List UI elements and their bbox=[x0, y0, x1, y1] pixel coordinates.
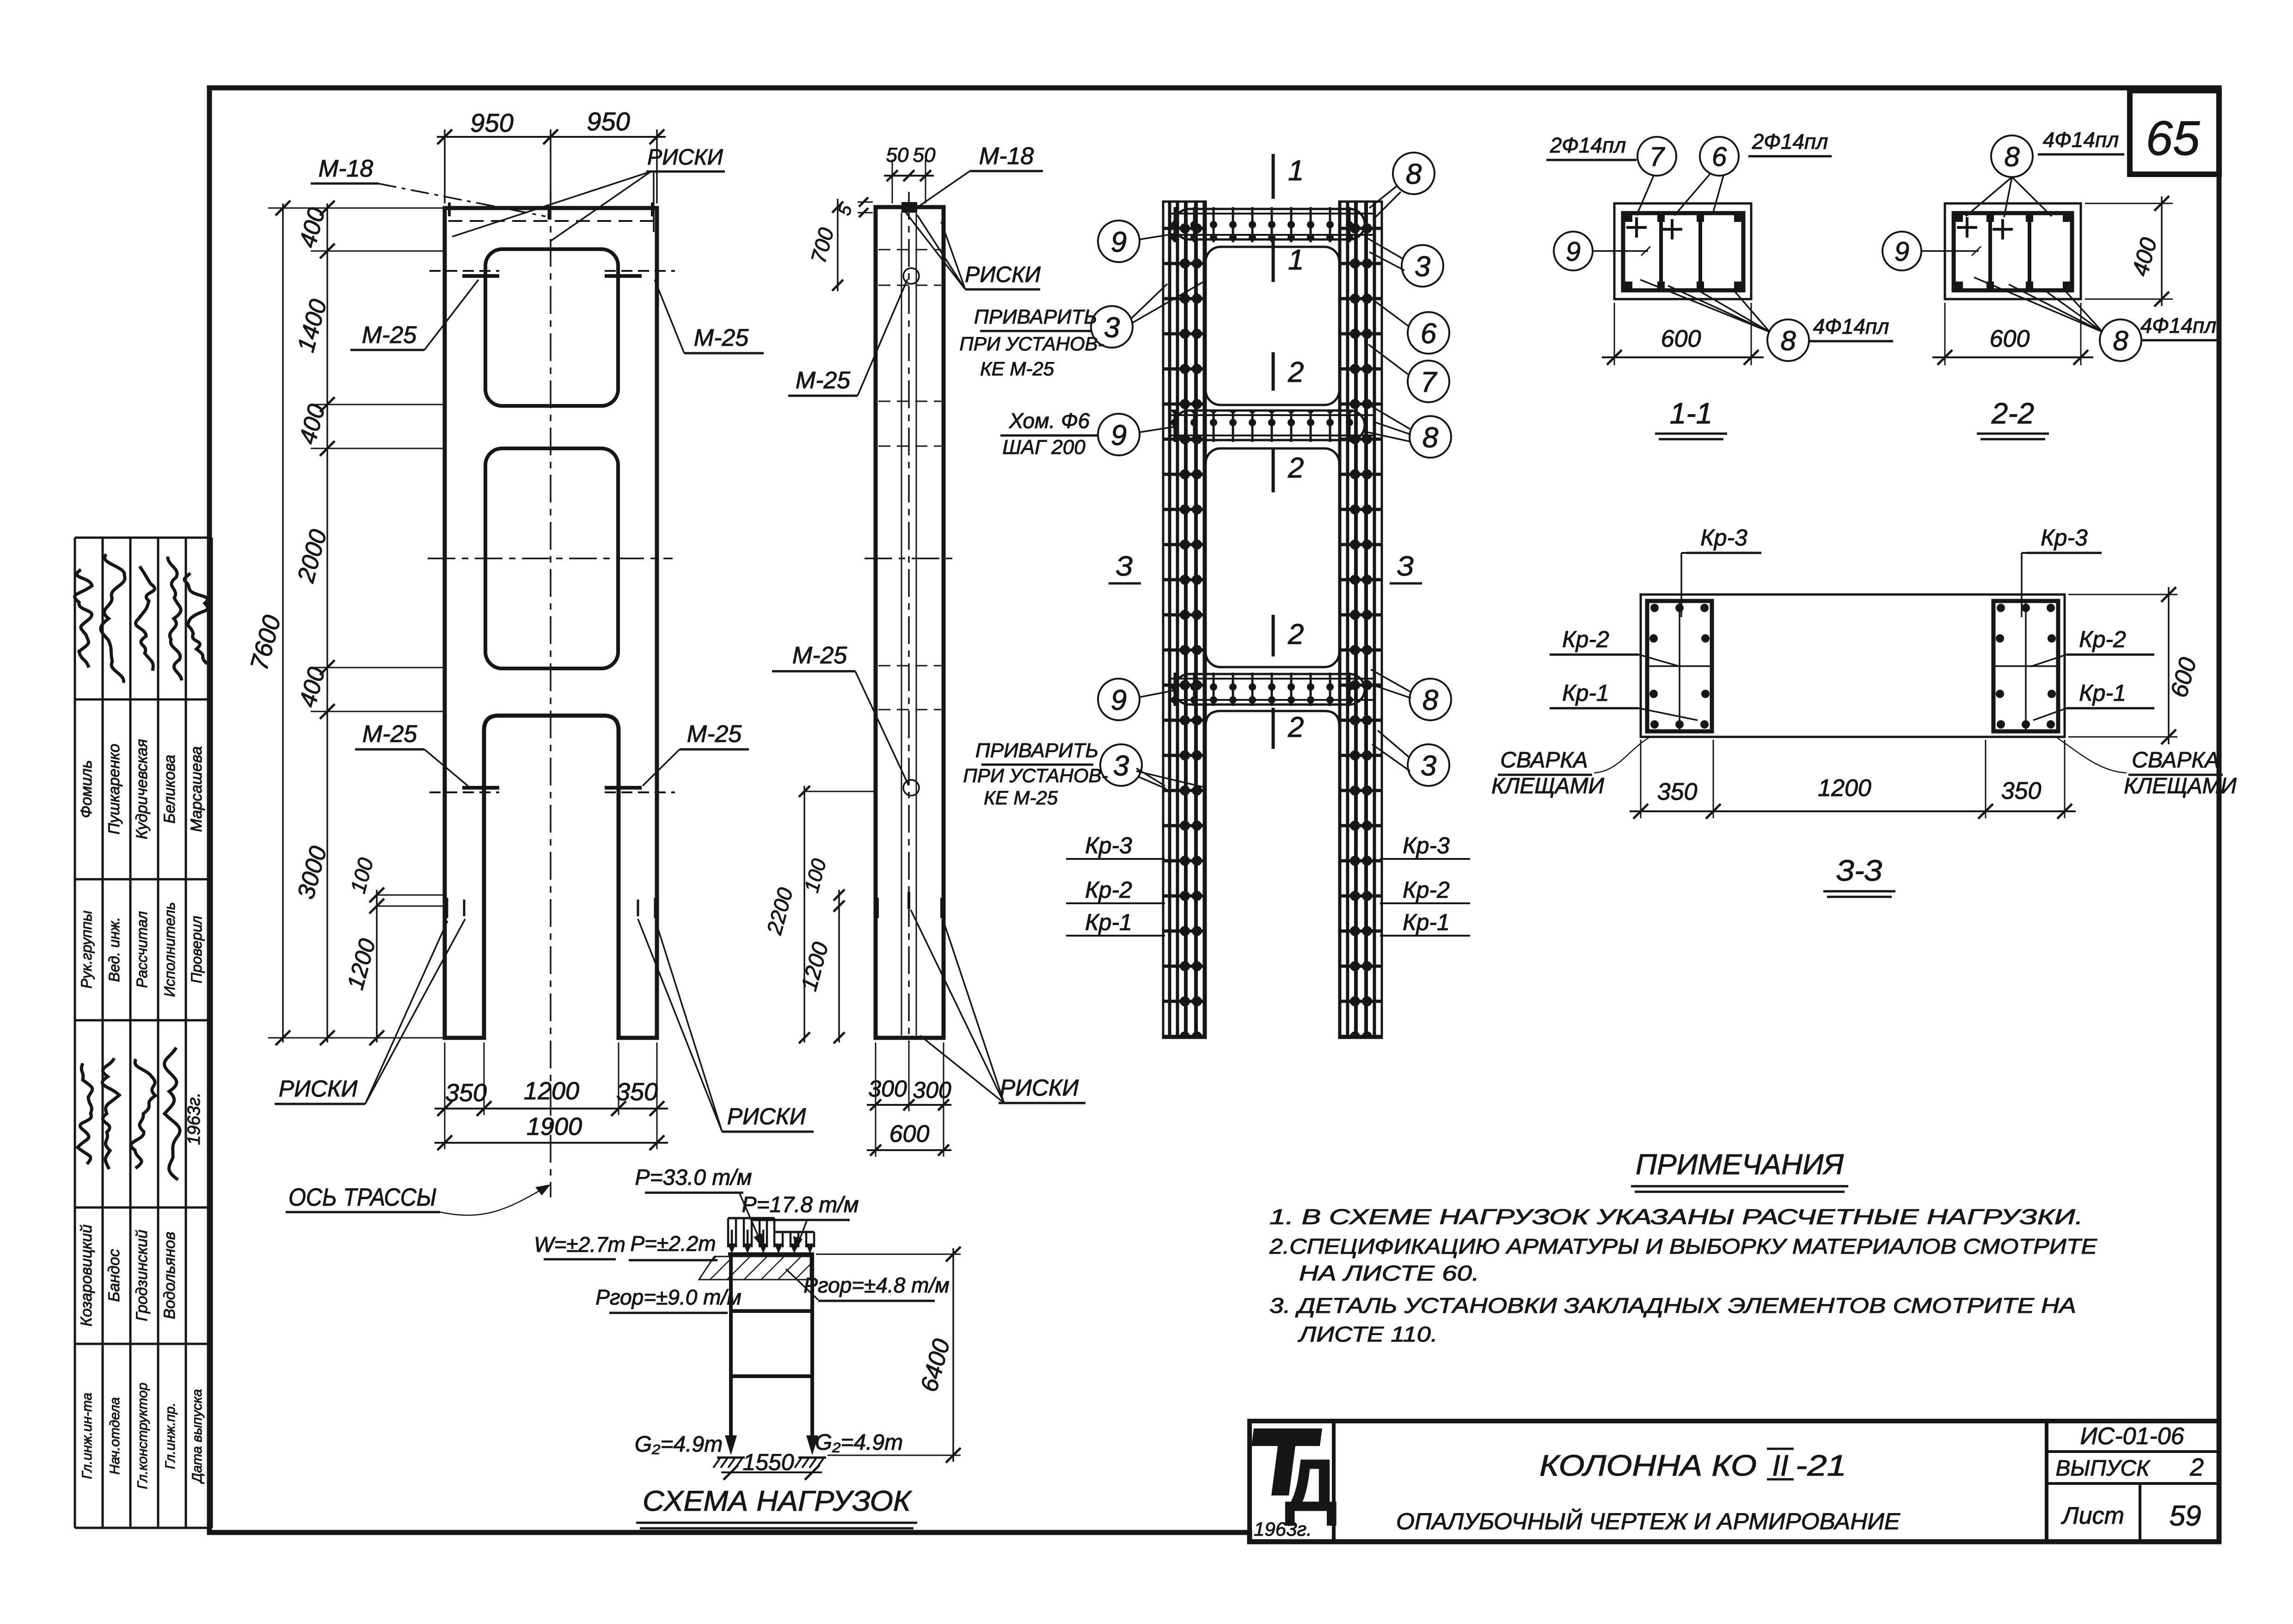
label Ptop=2.2t bbox=[629, 1232, 717, 1260]
svg-text:КЕ М-25: КЕ М-25 bbox=[980, 358, 1055, 380]
dimension 700 side bbox=[806, 199, 843, 291]
side view centerline bbox=[908, 192, 910, 1042]
svg-text:6: 6 bbox=[1712, 142, 1727, 172]
svg-text:ОСЬ ТРАССЫ: ОСЬ ТРАССЫ bbox=[288, 1183, 436, 1211]
dimension 100 1200 front bottom bbox=[342, 855, 447, 1045]
svg-text:Рассчитал: Рассчитал bbox=[134, 911, 150, 988]
title block frame bbox=[1250, 1421, 2219, 1542]
label Kr-2 section 3-3 right bbox=[2030, 626, 2154, 667]
stamp year 1963 bbox=[184, 1092, 204, 1145]
top corner risk marks bbox=[449, 202, 652, 216]
label RISKI top bbox=[452, 145, 725, 241]
svg-text:М-25: М-25 bbox=[687, 721, 742, 748]
title list 59 bbox=[2061, 1500, 2201, 1532]
svg-text:Исполнитель: Исполнитель bbox=[161, 902, 178, 997]
svg-text:РИСКИ: РИСКИ bbox=[1000, 1075, 1079, 1101]
callout 3 lower left bbox=[1100, 744, 1166, 789]
section title 3-3 bbox=[1823, 854, 1895, 897]
top center risk mark bbox=[548, 207, 551, 220]
svg-text:Р=33.0 т/м: Р=33.0 т/м bbox=[635, 1165, 752, 1190]
section 2-2 concrete outline bbox=[1945, 203, 2081, 299]
front view column outline bbox=[445, 208, 657, 1038]
svg-text:4Ф14пл: 4Ф14пл bbox=[2140, 313, 2217, 337]
svg-text:Марсашева: Марсашева bbox=[188, 746, 205, 832]
dimension 100 1200 side bbox=[797, 856, 845, 1043]
hatched beam top bbox=[699, 1256, 810, 1280]
svg-text:3. ДЕТАЛЬ УСТАНОВКИ ЗАКЛАДНЫ: 3. ДЕТАЛЬ УСТАНОВКИ ЗАКЛАДНЫХ ЭЛЕМЕНТОВ … bbox=[1269, 1293, 2076, 1318]
svg-text:II: II bbox=[1772, 1449, 1789, 1482]
svg-text:59: 59 bbox=[2170, 1500, 2201, 1532]
svg-text:Кр-3: Кр-3 bbox=[2041, 525, 2088, 551]
front view opening 2 bbox=[485, 448, 618, 668]
svg-text:8: 8 bbox=[2113, 325, 2128, 356]
label RISKI side bottom + fan bbox=[911, 910, 1085, 1103]
svg-text:СВАРКА: СВАРКА bbox=[1500, 748, 1588, 772]
label Kr-2 section 3-3 left bbox=[1550, 626, 1680, 667]
svg-text:Р=±2.2т: Р=±2.2т bbox=[630, 1232, 716, 1256]
svg-text:1963г.: 1963г. bbox=[1254, 1518, 1312, 1540]
side view outline bbox=[876, 207, 944, 1038]
labels Kr-3 Kr-2 Kr-1 left bbox=[1066, 833, 1165, 936]
callout 8 section 2-2 top bbox=[1966, 135, 2052, 217]
section title 2-2 bbox=[1977, 397, 2049, 439]
M-18 plate dashed line at top bbox=[448, 220, 654, 222]
M-25 plate upper left bbox=[429, 271, 499, 276]
callout 7 right bbox=[1368, 344, 1449, 402]
svg-text:З: З bbox=[1116, 551, 1133, 582]
stirrup band middle bbox=[1170, 410, 1375, 442]
side view M-18 plate bbox=[901, 202, 917, 213]
svg-text:КОЛОННА КО: КОЛОННА КО bbox=[1539, 1449, 1757, 1482]
label Pgor=9.0 t/m bbox=[595, 1285, 742, 1313]
svg-text:2: 2 bbox=[1288, 452, 1304, 484]
side view level dashes bbox=[864, 250, 955, 710]
dimension 950 950 top bbox=[437, 107, 666, 203]
svg-text:РИСКИ: РИСКИ bbox=[727, 1103, 806, 1129]
stamp names row 1 bbox=[78, 739, 205, 840]
label RISKI side top + fan bbox=[905, 212, 1041, 289]
label Kr-3 section 3-3 left bbox=[1681, 525, 1761, 617]
signature stamp grid bbox=[75, 538, 212, 1528]
risk marks bottom legs bbox=[447, 898, 656, 918]
callout 3 lower right bbox=[1372, 730, 1449, 786]
label P=17.8 t/m bbox=[742, 1193, 858, 1251]
dimension 5 side bbox=[834, 197, 873, 218]
rebar cage left leg bbox=[1163, 202, 1206, 1038]
load frame bottom arrows bbox=[713, 1435, 826, 1468]
label svarka kleshchami left bbox=[1491, 738, 1649, 798]
svg-text:Кр-1: Кр-1 bbox=[1403, 909, 1450, 935]
label M-25 lower left bbox=[355, 721, 468, 786]
svg-text:Кр-3: Кр-3 bbox=[1403, 833, 1450, 858]
stamp names row 2 bbox=[78, 1225, 178, 1327]
callout 8 top right bbox=[1369, 153, 1435, 217]
svg-text:ПРИ УСТАНОВ-: ПРИ УСТАНОВ- bbox=[959, 333, 1104, 355]
svg-text:50: 50 bbox=[886, 144, 909, 166]
dimension 350 1200 350 section 3-3 bbox=[1630, 740, 2076, 819]
svg-text:Кр-3: Кр-3 bbox=[1085, 833, 1132, 858]
svg-text:ВЫПУСК: ВЫПУСК bbox=[2056, 1456, 2151, 1481]
svg-text:Гл.инж.ин-та: Гл.инж.ин-та bbox=[80, 1393, 95, 1479]
svg-text:Нач.отдела: Нач.отдела bbox=[107, 1397, 123, 1474]
title IS-01-06 bbox=[2080, 1423, 2184, 1450]
svg-text:КЕ М-25: КЕ М-25 bbox=[984, 787, 1058, 809]
svg-text:Кр-3: Кр-3 bbox=[1700, 525, 1747, 551]
label 4F14pl section 2-2 top bbox=[2038, 128, 2124, 154]
svg-text:1: 1 bbox=[1288, 155, 1304, 187]
svg-text:3: 3 bbox=[1104, 312, 1120, 343]
section mark 3 left bbox=[1109, 551, 1141, 583]
svg-text:КЛЕЩАМИ: КЛЕЩАМИ bbox=[1491, 774, 1605, 798]
label Kr-1 section 3-3 left bbox=[1550, 680, 1698, 720]
svg-text:600: 600 bbox=[1990, 325, 2030, 352]
svg-text:1963г.: 1963г. bbox=[184, 1092, 204, 1145]
dimension 600 section 1-1 bbox=[1602, 303, 1764, 365]
title skhema nagruzok bbox=[636, 1485, 917, 1528]
title kolonna KO II-21 bbox=[1539, 1449, 1846, 1482]
dimension 300 300 side bbox=[867, 1042, 951, 1111]
svg-text:Ргор=±9.0 т/м: Ргор=±9.0 т/м bbox=[595, 1285, 742, 1309]
svg-text:-21: -21 bbox=[1796, 1449, 1846, 1482]
svg-text:Кр-1: Кр-1 bbox=[1085, 909, 1132, 935]
M-25 plate upper right bbox=[605, 271, 675, 276]
svg-text:Бандос: Бандос bbox=[105, 1249, 123, 1302]
svg-text:1-1: 1-1 bbox=[1670, 397, 1713, 430]
callout 9 top left bbox=[1098, 221, 1177, 262]
front view vertical centerline bbox=[550, 192, 552, 1197]
svg-text:950: 950 bbox=[587, 107, 630, 136]
distributed load block 2 bbox=[774, 1232, 814, 1254]
svg-text:Кудричевская: Кудричевская bbox=[133, 739, 151, 840]
svg-text:8: 8 bbox=[1422, 422, 1439, 453]
svg-text:6: 6 bbox=[1421, 318, 1437, 349]
svg-text:2-2: 2-2 bbox=[1991, 397, 2035, 430]
label M-25 upper right bbox=[655, 280, 764, 353]
note privarit upper bbox=[959, 306, 1104, 380]
title vypusk 2 bbox=[2056, 1453, 2204, 1481]
label M-25 lower right bbox=[643, 721, 749, 786]
label M-25 side lower bbox=[772, 642, 908, 785]
load frame legs bbox=[728, 1254, 814, 1435]
section mark 3 right bbox=[1390, 551, 1422, 583]
svg-text:ПРИВАРИТЬ: ПРИВАРИТЬ bbox=[974, 306, 1097, 328]
load frame crossbars bbox=[731, 1311, 812, 1376]
svg-text:9: 9 bbox=[1566, 237, 1581, 267]
svg-text:Кр-1: Кр-1 bbox=[2079, 680, 2126, 706]
dimension 600 section 3-3 bbox=[2068, 587, 2202, 744]
svg-text:НА ЛИСТЕ 60.: НА ЛИСТЕ 60. bbox=[1299, 1261, 1479, 1285]
svg-text:600: 600 bbox=[889, 1121, 930, 1147]
svg-text:М-25: М-25 bbox=[362, 322, 417, 349]
label RISKI bottom middle bbox=[638, 919, 814, 1132]
stamp signatures row 1 bbox=[75, 554, 208, 683]
svg-text:9: 9 bbox=[1894, 237, 1909, 267]
svg-text:ИС-01-06: ИС-01-06 bbox=[2080, 1423, 2184, 1450]
notes title primechaniya bbox=[1631, 1149, 1848, 1192]
front view horizontal centerline bbox=[428, 558, 673, 559]
callout 9 left middle bbox=[1098, 414, 1178, 455]
svg-text:G₂=4.9т: G₂=4.9т bbox=[815, 1430, 903, 1455]
callout 8 right middle bbox=[1367, 406, 1451, 458]
svg-text:ПРИ УСТАНОВ-: ПРИ УСТАНОВ- bbox=[963, 765, 1108, 786]
section cut marks 1 and 2 bbox=[1273, 154, 1304, 749]
svg-text:З: З bbox=[1397, 551, 1414, 582]
note line 3 bbox=[1269, 1293, 2076, 1318]
svg-text:7: 7 bbox=[1649, 142, 1666, 172]
stirrup band lower bbox=[1170, 673, 1375, 706]
M-25 anchor circle upper side bbox=[903, 268, 919, 284]
dimension 7600 overall bbox=[245, 201, 324, 1045]
svg-text:1200: 1200 bbox=[1818, 775, 1871, 802]
title opalubochny chertezh bbox=[1396, 1508, 1901, 1534]
label 2F14pl left bbox=[1546, 133, 1637, 160]
M-25 plate lower left bbox=[429, 788, 499, 792]
note line 2b bbox=[1299, 1261, 1479, 1285]
svg-text:2: 2 bbox=[1288, 356, 1304, 388]
svg-text:350: 350 bbox=[445, 1079, 487, 1107]
svg-text:Гл.конструктор: Гл.конструктор bbox=[135, 1383, 150, 1489]
callout 8 section 2-2 bottom bbox=[1974, 277, 2141, 361]
stirrup band top bbox=[1170, 207, 1375, 242]
section 3-3 right cage bbox=[1993, 601, 2058, 731]
distributed load block 1 bbox=[728, 1218, 774, 1254]
svg-text:Кр-2: Кр-2 bbox=[1562, 626, 1609, 652]
svg-text:М-25: М-25 bbox=[792, 642, 848, 669]
svg-text:РИСКИ: РИСКИ bbox=[965, 263, 1041, 287]
callout 9 section 2-2 bbox=[1882, 232, 1981, 270]
svg-text:РИСКИ: РИСКИ bbox=[647, 145, 723, 170]
svg-text:350: 350 bbox=[616, 1078, 658, 1106]
svg-text:Кр-2: Кр-2 bbox=[1085, 877, 1132, 903]
side bottom risk ticks bbox=[877, 892, 942, 918]
label os trassy bbox=[286, 1183, 551, 1215]
label 4F14pl section 2-2 bottom bbox=[2140, 313, 2217, 340]
svg-text:Кр-2: Кр-2 bbox=[1403, 877, 1450, 903]
svg-text:350: 350 bbox=[1657, 778, 1698, 805]
svg-text:Д: Д bbox=[1285, 1444, 1337, 1526]
label Kr-1 section 3-3 right bbox=[2033, 680, 2154, 720]
label RISKI bottom left bbox=[275, 919, 465, 1104]
callout 7 section 1-1 bbox=[1637, 137, 1676, 215]
svg-text:Лист: Лист bbox=[2061, 1502, 2124, 1529]
svg-text:950: 950 bbox=[470, 108, 513, 137]
label P=33.0 t/m bbox=[635, 1165, 764, 1249]
svg-text:4Ф14пл: 4Ф14пл bbox=[2043, 128, 2119, 152]
svg-text:1550: 1550 bbox=[742, 1449, 794, 1475]
svg-text:Кр-2: Кр-2 bbox=[2079, 626, 2126, 652]
svg-text:М-25: М-25 bbox=[362, 721, 418, 748]
callout 6 section 1-1 bbox=[1674, 137, 1739, 215]
note privarit lower bbox=[963, 739, 1204, 809]
svg-text:3: 3 bbox=[1113, 750, 1129, 782]
note khom f6 bbox=[1000, 409, 1098, 459]
svg-text:8: 8 bbox=[2004, 141, 2020, 172]
svg-text:Р=17.8 т/м: Р=17.8 т/м bbox=[742, 1193, 858, 1217]
callout 9 left lower bbox=[1098, 679, 1178, 720]
svg-text:1: 1 bbox=[1288, 244, 1304, 276]
svg-text:2: 2 bbox=[1288, 619, 1304, 650]
rebar opening 1 bbox=[1206, 247, 1339, 405]
stamp signatures row 2 bbox=[78, 1048, 180, 1180]
svg-text:9: 9 bbox=[1111, 684, 1127, 716]
front view opening 1 bbox=[485, 249, 618, 406]
label W=2.7t bbox=[534, 1232, 625, 1259]
callout 8 section 1-1 bbox=[1640, 280, 1809, 361]
section 1-1 rebar cage bbox=[1623, 213, 1743, 290]
logo TD 1963 bbox=[1251, 1428, 1337, 1540]
svg-text:1. В СХЕМЕ НАГРУЗОК УКАЗАНЫ: 1. В СХЕМЕ НАГРУЗОК УКАЗАНЫ РАСЧЕТНЫЕ НА… bbox=[1269, 1205, 2083, 1229]
note line 2 bbox=[1269, 1234, 2098, 1258]
svg-text:300: 300 bbox=[913, 1077, 951, 1103]
label M-25 side upper bbox=[788, 279, 907, 396]
svg-text:Проверил: Проверил bbox=[188, 916, 205, 983]
callout 3 upper right bbox=[1365, 237, 1443, 287]
svg-text:Хом. Ф6: Хом. Ф6 bbox=[1009, 409, 1090, 433]
label G2=4.9t right bbox=[815, 1430, 903, 1455]
svg-text:Гл.инж.пр.: Гл.инж.пр. bbox=[163, 1403, 178, 1469]
svg-text:ЛИСТЕ 110.: ЛИСТЕ 110. bbox=[1297, 1322, 1438, 1346]
svg-text:Беликова: Беликова bbox=[161, 755, 178, 824]
label Pgor=4.8 t/m bbox=[786, 1269, 950, 1301]
svg-text:Кр-1: Кр-1 bbox=[1562, 680, 1609, 706]
svg-text:Фомиль: Фомиль bbox=[78, 760, 95, 818]
label Kr-3 section 3-3 right bbox=[2022, 525, 2102, 617]
svg-text:М-18: М-18 bbox=[979, 143, 1034, 170]
svg-text:350: 350 bbox=[2001, 778, 2042, 804]
callout 9 section 1-1 bbox=[1554, 232, 1650, 270]
side view anchor lines bbox=[901, 213, 916, 1036]
callout 6 right bbox=[1374, 300, 1449, 354]
svg-text:8: 8 bbox=[1780, 325, 1796, 356]
svg-text:600: 600 bbox=[1661, 325, 1701, 352]
rebar bottom gap bbox=[1206, 711, 1339, 1038]
svg-text:РИСКИ: РИСКИ bbox=[279, 1076, 358, 1102]
svg-text:М-25: М-25 bbox=[694, 325, 749, 351]
M-25 anchor circle lower side bbox=[903, 780, 919, 796]
svg-text:М-25: М-25 bbox=[796, 367, 851, 394]
svg-text:8: 8 bbox=[1422, 684, 1439, 716]
svg-text:2: 2 bbox=[1288, 711, 1304, 743]
svg-text:G₂=4.9т: G₂=4.9т bbox=[635, 1432, 723, 1457]
label 2F14pl right bbox=[1748, 129, 1832, 156]
svg-text:4Ф14пл: 4Ф14пл bbox=[1813, 314, 1889, 338]
dimension 600 side bbox=[867, 1111, 951, 1157]
svg-text:ПРИВАРИТЬ: ПРИВАРИТЬ bbox=[975, 739, 1098, 762]
dimension 6400 bbox=[816, 1247, 961, 1463]
svg-text:Вед. инж.: Вед. инж. bbox=[106, 917, 123, 982]
svg-text:2.СПЕЦИФИКАЦИЮ АРМАТУРЫ И В: 2.СПЕЦИФИКАЦИЮ АРМАТУРЫ И ВЫБОРКУ МАТЕРИ… bbox=[1269, 1234, 2098, 1258]
svg-text:2: 2 bbox=[2189, 1453, 2204, 1481]
svg-text:Дата выпуска: Дата выпуска bbox=[190, 1389, 205, 1484]
dimension 50 50 side top bbox=[884, 144, 936, 203]
svg-text:3: 3 bbox=[1415, 251, 1430, 282]
dimension 400 section 2-2 bbox=[2085, 196, 2173, 306]
note line 3b bbox=[1297, 1322, 1438, 1346]
dimension 350 1200 350 front bbox=[435, 1042, 668, 1116]
dimension 2200 side bbox=[762, 786, 874, 1043]
svg-text:Водольянов: Водольянов bbox=[161, 1232, 178, 1319]
label M-25 upper left bbox=[350, 280, 478, 350]
callout 3 upper left bbox=[1091, 281, 1205, 348]
dimension 600 section 2-2 bbox=[1932, 303, 2093, 365]
svg-text:З-З: З-З bbox=[1836, 854, 1882, 887]
svg-text:2Ф14пл: 2Ф14пл bbox=[1550, 133, 1626, 157]
callout 8 right lower bbox=[1371, 669, 1451, 720]
section 3-3 concrete outline bbox=[1641, 594, 2065, 737]
svg-text:W=±2.7т: W=±2.7т bbox=[534, 1232, 625, 1256]
dimension 1900 front bbox=[435, 1113, 668, 1150]
svg-text:7: 7 bbox=[1421, 366, 1438, 398]
svg-text:3: 3 bbox=[1421, 750, 1436, 782]
svg-text:КЛЕЩАМИ: КЛЕЩАМИ bbox=[2124, 774, 2237, 798]
svg-text:1900: 1900 bbox=[527, 1113, 582, 1140]
svg-text:50: 50 bbox=[913, 144, 936, 166]
svg-text:ПРИМЕЧАНИЯ: ПРИМЕЧАНИЯ bbox=[1636, 1149, 1844, 1181]
M-25 plate lower right bbox=[605, 788, 675, 792]
rebar cage right leg bbox=[1339, 202, 1382, 1038]
dimension 1550 bbox=[721, 1449, 822, 1480]
svg-text:Пушкаренко: Пушкаренко bbox=[105, 744, 123, 834]
svg-text:ОПАЛУБОЧНЫЙ ЧЕРТЕЖ И: ОПАЛУБОЧНЫЙ ЧЕРТЕЖ И АРМИРОВАНИЕ bbox=[1396, 1508, 1901, 1534]
rebar opening 2 bbox=[1206, 448, 1339, 667]
svg-text:300: 300 bbox=[868, 1076, 907, 1102]
label M-18 side bbox=[918, 143, 1043, 207]
section 2-2 rebar cage bbox=[1954, 213, 2072, 290]
section 1-1 concrete outline bbox=[1614, 203, 1751, 299]
svg-text:2Ф14пл: 2Ф14пл bbox=[1752, 129, 1828, 153]
note line 1 bbox=[1269, 1205, 2083, 1229]
svg-text:8: 8 bbox=[1406, 158, 1422, 190]
svg-text:ШАГ 200: ШАГ 200 bbox=[1002, 436, 1085, 459]
label svarka kleshchami right bbox=[2057, 738, 2237, 798]
svg-text:Ргор=±4.8 т/м: Ргор=±4.8 т/м bbox=[803, 1273, 950, 1297]
stamp titles row 1 bbox=[78, 902, 205, 997]
svg-text:СХЕМА НАГРУЗОК: СХЕМА НАГРУЗОК bbox=[643, 1485, 913, 1517]
svg-text:Козаровицкий: Козаровицкий bbox=[78, 1225, 95, 1327]
svg-text:М-18: М-18 bbox=[319, 155, 374, 182]
svg-text:9: 9 bbox=[1111, 226, 1127, 258]
svg-text:Гродзинский: Гродзинский bbox=[133, 1230, 151, 1321]
labels Kr-3 Kr-2 Kr-1 right bbox=[1380, 833, 1470, 936]
svg-text:1200: 1200 bbox=[524, 1077, 579, 1105]
svg-text:СВАРКА: СВАРКА bbox=[2132, 748, 2219, 772]
svg-text:65: 65 bbox=[2146, 111, 2200, 165]
svg-text:9: 9 bbox=[1111, 419, 1127, 451]
stamp titles row 2 bbox=[80, 1383, 205, 1489]
dimension chain left 400-1400-400-2000-400-3000 bbox=[292, 201, 445, 1045]
section 3-3 left cage bbox=[1647, 601, 1712, 731]
label 4F14pl section 1-1 bbox=[1809, 314, 1893, 341]
svg-text:Рук.группы: Рук.группы bbox=[78, 911, 95, 989]
section title 1-1 bbox=[1655, 397, 1727, 439]
sheet number box 65 bbox=[2130, 91, 2219, 174]
label G2=4.9t left bbox=[635, 1432, 723, 1457]
label M-18 front bbox=[311, 155, 546, 216]
